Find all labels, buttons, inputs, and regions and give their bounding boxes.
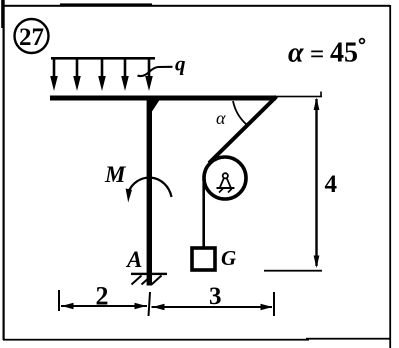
thin extension line to dimension (274, 96, 322, 98)
load arrow 4 (121, 58, 129, 91)
svg-text:α: α (288, 38, 304, 69)
svg-text:α: α (216, 108, 226, 128)
load arrow 2 (73, 58, 81, 91)
top border scan overlap patch (60, 3, 152, 5)
right tick (273, 292, 275, 316)
svg-text:=: = (310, 41, 324, 68)
svg-text:q: q (175, 52, 186, 76)
svg-text:A: A (125, 247, 142, 272)
distributed load q top line (51, 57, 155, 60)
dim4 top arrowhead (314, 98, 320, 111)
svg-text:2: 2 (96, 282, 109, 311)
dimension 4 vertical line (315, 99, 317, 266)
angle arc at alpha (233, 101, 247, 125)
bottom dimension line ticks (58, 290, 60, 311)
dim 2 line (61, 305, 147, 307)
frame left border top segment (1, 0, 3, 28)
leader line to q label (138, 67, 173, 76)
pulley circle (204, 157, 246, 199)
support hatching (132, 276, 162, 285)
small end tick on extension line (320, 92, 322, 97)
gusset at beam junction (152, 100, 160, 112)
horizontal beam (50, 96, 276, 101)
moment M arc (128, 178, 172, 197)
load arrow 3 (98, 58, 106, 91)
dim 3 line (152, 306, 273, 308)
inclined rope member (209, 97, 277, 164)
frame right border (389, 5, 391, 348)
weight G box (192, 248, 215, 270)
vertical beam column (147, 99, 152, 286)
dim4 bottom arrowhead (314, 256, 320, 269)
support base line at A (131, 273, 167, 275)
dim2 left arrowhead (62, 303, 74, 309)
pulley pin symbol (217, 173, 235, 192)
middle tick (149, 292, 151, 316)
dim2 right arrowhead (135, 303, 147, 309)
bottom extension line of dim 4 (264, 270, 322, 272)
problem number circle 27 (15, 19, 49, 53)
svg-text:M: M (104, 162, 127, 187)
svg-text:27: 27 (19, 24, 44, 51)
dim3 right arrowhead (261, 304, 273, 310)
svg-text:G: G (221, 246, 236, 270)
load arrow 1 (50, 58, 58, 91)
rope from pulley to weight (202, 176, 205, 247)
svg-text:4: 4 (325, 171, 338, 198)
svg-text:3: 3 (209, 283, 222, 310)
frame left border (3, 0, 5, 340)
load arrow 5 (145, 58, 153, 91)
svg-text:45: 45 (330, 38, 358, 69)
frame bottom border (3, 339, 309, 341)
dim3 left arrowhead (153, 304, 165, 310)
moment arrowhead (126, 189, 132, 203)
frame top border (3, 5, 390, 7)
